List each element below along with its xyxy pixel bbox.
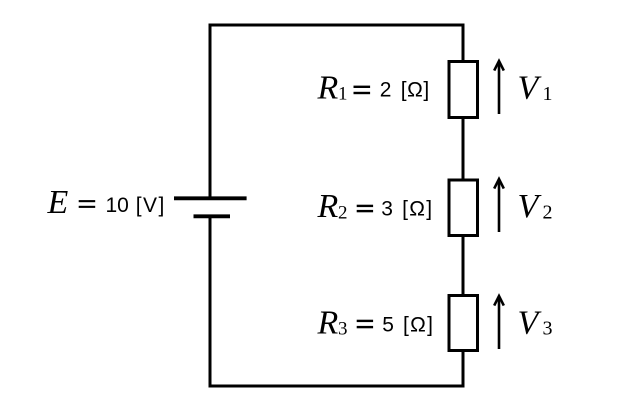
svg-text:5: 5 bbox=[382, 314, 394, 337]
svg-text:[Ω]: [Ω] bbox=[401, 78, 430, 101]
svg-text:2: 2 bbox=[380, 78, 392, 101]
svg-text:R: R bbox=[317, 188, 339, 225]
svg-text:10: 10 bbox=[106, 194, 129, 217]
svg-text:2: 2 bbox=[543, 201, 553, 223]
svg-text:[Ω]: [Ω] bbox=[402, 197, 432, 220]
svg-text:3: 3 bbox=[381, 197, 393, 220]
svg-text:R: R bbox=[317, 70, 339, 107]
svg-text:[V]: [V] bbox=[136, 194, 165, 217]
svg-text:3: 3 bbox=[338, 319, 348, 340]
svg-text:E: E bbox=[47, 184, 69, 221]
svg-text:3: 3 bbox=[543, 318, 553, 340]
svg-text:1: 1 bbox=[543, 83, 553, 105]
svg-text:2: 2 bbox=[338, 202, 348, 223]
svg-text:1: 1 bbox=[338, 84, 348, 105]
svg-text:[Ω]: [Ω] bbox=[403, 314, 433, 337]
svg-text:R: R bbox=[317, 304, 339, 341]
